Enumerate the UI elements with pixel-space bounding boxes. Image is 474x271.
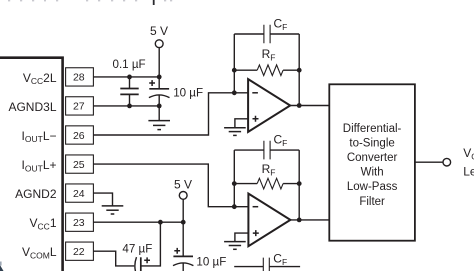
svg-text:Left: Left [463,164,474,178]
wire pin 26 IOUTL- to op-amp U2A inverting input [93,93,248,135]
node junction dot 5V/pin28 [157,75,162,80]
svg-text:24: 24 [73,188,85,200]
minus sign op-amp 2 [253,206,259,208]
svg-text:Low-Pass: Low-Pass [347,181,398,193]
capacitor C4 47uF electrolytic [135,222,161,271]
capacitor CF (op-amp 2 feedback) [234,141,299,160]
wire op-amp 2 non-inverting input to ground [235,233,249,241]
node junction dot pin27/C1 [127,104,132,109]
junction dot RF right (op-amp 1) [297,68,302,73]
junction dot RF left (op-amp 1) [232,68,237,73]
ground op-amp 2 non-inverting input [224,242,246,250]
wire pin 27 to 10uF node [93,105,159,107]
svg-text:5 V: 5 V [174,177,192,191]
partial third channel CF capacitor (cropped at bottom) [234,258,300,271]
svg-text:47 µF: 47 µF [122,242,152,255]
svg-text:Converter: Converter [347,152,398,164]
ground op-amp 1 non-inverting input [224,128,246,136]
plus sign op-amp 1 [253,116,259,122]
5V supply terminal (top) [150,24,168,77]
ground AGND2 [102,206,124,214]
svg-text:0.1 µF: 0.1 µF [113,58,146,71]
op-amp U2B triangle [248,194,290,247]
IC U1 DAC body (cropped at left/bottom) [0,58,63,271]
resistor RF (op-amp 1 feedback) [234,65,299,76]
svg-text:to-Single: to-Single [349,138,394,150]
svg-text:Filter: Filter [359,196,385,208]
svg-text:AGND2: AGND2 [15,187,57,201]
junction dot inverting input (op-amp 2) [232,204,237,209]
node junction dot pin28/C1 [127,75,132,80]
svg-text:26: 26 [73,130,85,142]
op-amp 1 feedback left node vertical wire [233,34,235,93]
capacitor C1 0.1uF [120,77,138,106]
junction dot inverting input (op-amp 1) [232,90,237,95]
svg-text:22: 22 [73,246,85,258]
pin box 24 [66,184,94,202]
junction dot op-amp 2 output [297,218,302,223]
pin box 27 [66,97,94,115]
plus sign op-amp 2 [253,230,259,236]
op-amp 2 feedback left node vertical wire [233,150,235,207]
svg-text:10 µF: 10 µF [173,86,203,99]
wire pin 28 to 5V node [93,76,159,78]
op-amp U2A triangle [248,79,290,132]
node junction dot pin23/47uF branch [158,220,163,225]
wire converter block output to VOUT terminal [415,161,443,163]
resistor RF (op-amp 2 feedback) [234,178,299,189]
op-amp 2 feedback right node vertical wire [298,150,300,220]
junction dot op-amp 1 output [297,103,302,108]
capacitor C2 10uF electrolytic [149,77,170,121]
pin box 26 [66,126,94,144]
wire op-amp 1 non-inverting input to ground [235,119,248,128]
svg-text:5 V: 5 V [150,24,168,38]
svg-text:25: 25 [73,159,85,171]
clipped text remnants along top edge [8,0,172,5]
svg-text:Differential-: Differential- [343,123,402,135]
svg-text:23: 23 [73,217,85,229]
svg-text:27: 27 [73,101,85,113]
capacitor C3 10uF electrolytic (lower) [173,248,193,271]
label VOUT Left (cropped at right edge) [463,146,474,178]
pin box 23 [66,213,94,231]
wire pin 24 AGND2 to ground [93,193,112,206]
svg-text:With: With [361,167,384,179]
blue smudge artifact bottom-left corner [0,262,4,271]
junction dot RF right (op-amp 2) [297,181,302,186]
wire op-amp 1 output to converter block [290,105,329,107]
5V supply terminal (lower) [174,177,192,256]
pin box 25 [66,155,94,173]
op-amp 1 feedback right node vertical wire [298,34,300,106]
svg-text:10 µF: 10 µF [196,256,226,269]
VOUT terminal circle [443,158,451,166]
svg-text:AGND3L: AGND3L [8,100,56,114]
ground below C2 [148,121,170,130]
pin box 22 [66,242,94,260]
wire pin 23 VCC1 to 5V node [93,221,183,223]
wire op-amp 2 output to converter block [290,219,329,221]
wire pin 25 IOUTL+ to op-amp U2B inverting input [93,164,248,207]
svg-text:28: 28 [73,72,85,84]
capacitor CF (op-amp 1 feedback) [234,25,299,44]
junction dot RF left (op-amp 2) [232,181,237,186]
wire pin 22 VCOML to 47uF [93,251,134,266]
node junction dot pin27/C2 [157,104,162,109]
minus sign op-amp 1 [252,92,258,94]
pin box 28 [66,68,94,86]
differential-to-single converter block [329,84,415,240]
node junction dot pin23/5V [181,220,186,225]
